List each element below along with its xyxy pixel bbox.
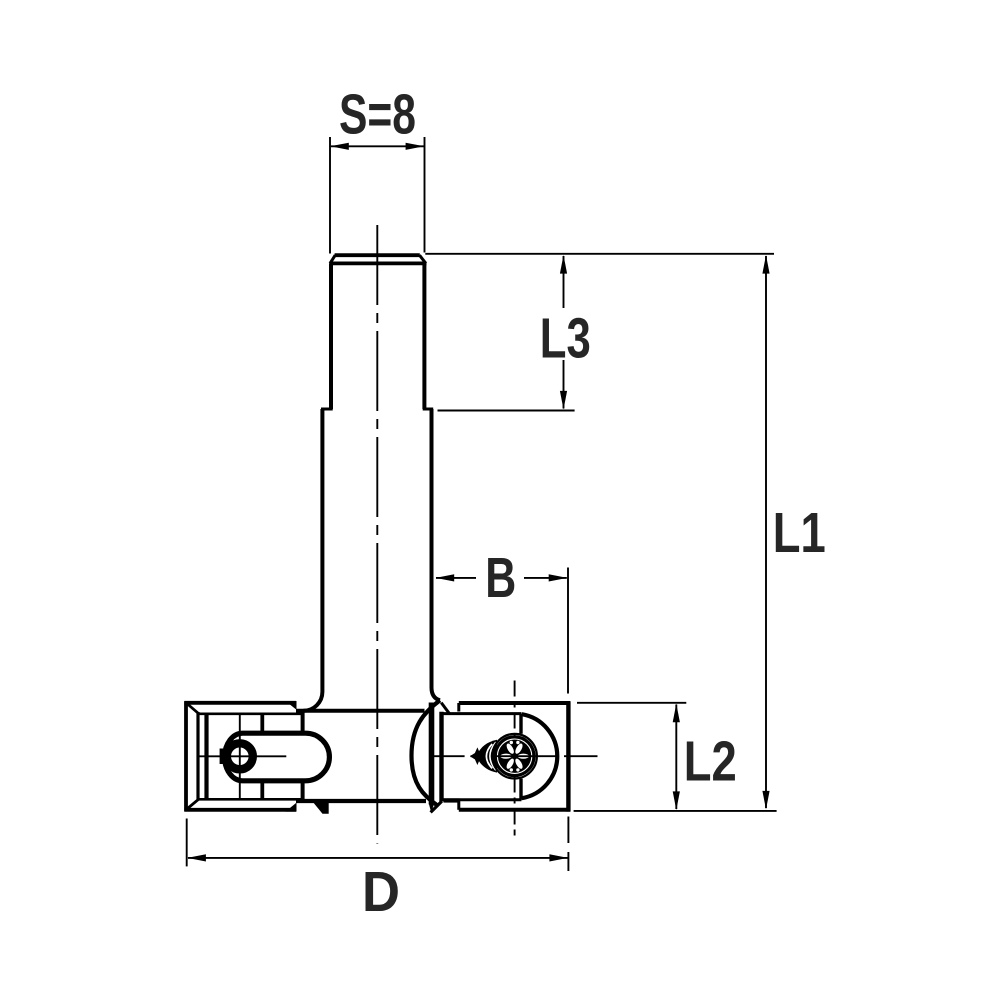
- left screw crosshair horizontal: [198, 755, 287, 757]
- torx face white separation ring: [497, 739, 531, 773]
- svg-text:S=8: S=8: [339, 83, 416, 147]
- hub bottom edge right part: [444, 798, 460, 802]
- dimension L3 bottom extension line: [438, 410, 575, 412]
- left screw head ring: [227, 743, 253, 769]
- lower spur tooth left: [313, 803, 328, 814]
- screw side profile white slit 2: [490, 742, 496, 770]
- flute top bevel diagonal: [441, 703, 450, 714]
- svg-text:L1: L1: [773, 501, 826, 565]
- dimension L2 top extension line: [577, 702, 686, 704]
- torx rim dots: [510, 741, 520, 772]
- shank lower left edge with neck flare fillet: [303, 409, 322, 711]
- right block outer right edge: [566, 701, 570, 811]
- left pocket right vertical upper: [301, 711, 305, 733]
- centerline main vertical axis: [376, 225, 378, 844]
- right block step top: [457, 703, 460, 712]
- left pocket bottom edge: [197, 798, 303, 801]
- dimension S extension line right: [424, 137, 426, 253]
- far insert profile arc: [412, 700, 441, 805]
- shank top chamfer bottom line: [329, 261, 426, 265]
- svg-text:L2: L2: [684, 729, 737, 793]
- left screw crosshair vertical: [239, 713, 241, 801]
- insert pocket big arc: [522, 714, 557, 798]
- shank upper left edge: [329, 263, 333, 409]
- dimension S arrowhead right: [406, 143, 425, 150]
- dimension D right extension dashes: [567, 817, 569, 872]
- hub top edge: [296, 709, 425, 713]
- dimension S arrow line: [331, 145, 424, 147]
- left pocket left vertical: [204, 713, 208, 801]
- left insert (bullet shaped knife): [225, 733, 330, 781]
- right pocket left vertical: [439, 712, 443, 802]
- dimension L1 arrowhead up: [762, 255, 769, 274]
- shank chamfer left diagonal: [330, 255, 335, 263]
- left block top-right bevel: [286, 701, 297, 710]
- screw side tip star: [470, 747, 485, 765]
- dimension D arrowhead left: [187, 854, 206, 861]
- dimension L2 arrowhead down: [673, 791, 680, 810]
- svg-text:D: D: [362, 860, 400, 924]
- left block inner corner diagonal top: [188, 704, 199, 714]
- flute face vertical (right of hub): [429, 703, 435, 805]
- dimension L3 line upper segment: [563, 256, 565, 308]
- left block outer left edge: [184, 701, 188, 811]
- flute tooth diagonal: [431, 801, 442, 812]
- extension line top horizontal (shank top level): [425, 253, 774, 255]
- screw head thick circle: [495, 737, 533, 775]
- left pocket middle vertical upper: [260, 713, 264, 733]
- shank top chamfer top line: [335, 253, 420, 257]
- right pocket right vertical upper: [519, 714, 522, 734]
- screw washer thin circle: [492, 734, 537, 779]
- hub bottom edge left part: [296, 799, 426, 803]
- dimension B right extension line: [567, 568, 569, 694]
- left block bottom-right bevel: [286, 803, 297, 812]
- dimension L3 arrowhead down: [560, 391, 567, 410]
- screw side profile cone body: [478, 740, 497, 773]
- shank lower right edge with neck fillet: [432, 409, 441, 700]
- bottom extension line (L1 / L2): [574, 810, 777, 812]
- right block outer top edge: [459, 701, 570, 705]
- left pocket top edge: [197, 712, 303, 715]
- right pocket right vertical lower: [519, 779, 522, 800]
- dimension D left extension line: [186, 819, 188, 867]
- dimension S arrowhead left: [330, 143, 349, 150]
- right block step bottom: [457, 801, 460, 810]
- dimension L3 arrowhead up: [560, 255, 567, 274]
- left block outer top edge: [184, 701, 296, 705]
- dimension L3 line lower segment: [563, 360, 565, 409]
- dimension D arrowhead right: [549, 854, 568, 861]
- shank step right: [423, 408, 434, 411]
- svg-text:L3: L3: [540, 307, 591, 371]
- left block inner corner diagonal bottom: [188, 799, 199, 808]
- dimension B line right segment: [524, 577, 567, 579]
- torx petals: [500, 742, 529, 770]
- left pocket right vertical lower: [301, 782, 305, 802]
- dimension B arrowhead left: [436, 574, 455, 581]
- screw side profile white slit 1: [486, 744, 492, 768]
- dimension L2 line: [675, 705, 677, 810]
- screw centerline vertical (right): [514, 681, 516, 839]
- shank chamfer right diagonal: [420, 255, 426, 263]
- screw torx face disk: [498, 739, 532, 773]
- right pocket top edge: [442, 712, 522, 715]
- dimension L1 line: [765, 256, 767, 808]
- dimension D line: [188, 857, 568, 859]
- svg-text:B: B: [485, 546, 516, 610]
- dimension L2 arrowhead up: [673, 704, 680, 723]
- right pocket bottom edge: [442, 798, 522, 801]
- right block outer bottom edge: [459, 808, 570, 812]
- shank upper right edge: [422, 263, 426, 409]
- flute tooth tip fill: [429, 804, 434, 813]
- dimension S extension line left: [329, 137, 331, 254]
- dimension B arrowhead right: [549, 574, 568, 581]
- left block outer bottom edge: [184, 808, 296, 812]
- screw crosshair horizontal segments: [433, 755, 598, 757]
- dimension B line left segment: [436, 577, 476, 579]
- left pocket middle vertical lower: [260, 782, 264, 801]
- left insert edge tab: [220, 749, 225, 765]
- left block inner left edge: [196, 712, 199, 801]
- shank step left: [321, 408, 333, 411]
- dimension L1 arrowhead down: [762, 791, 769, 810]
